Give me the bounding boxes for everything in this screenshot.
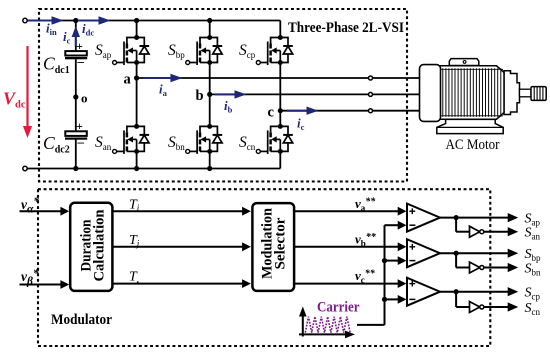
svg-text:o: o (81, 91, 88, 106)
wire Cdc1 top lead (75, 21, 77, 52)
inverter (NOT gate) 3 (470, 302, 480, 313)
connector phase c (369, 109, 373, 113)
switch Scp (MOSFET with freewheeling diode) (256, 35, 293, 65)
svg-text:Calculation: Calculation (92, 210, 108, 282)
wire San to bottom bus (136, 151, 138, 168)
wire leg c to node c (279, 63, 281, 111)
wire branch to inverter 2 (455, 253, 457, 267)
wire top DC bus (27, 20, 280, 22)
carrier waveform (triangular) (305, 317, 350, 333)
wire phase b to motor (210, 93, 420, 95)
wire S_an output (484, 231, 510, 233)
junction carrier/U2 (382, 258, 387, 263)
wire node o to Cdc2 (75, 97, 77, 132)
wire comparator U2 output (440, 252, 456, 254)
svg-text:a: a (124, 72, 132, 88)
wire v_c reference (294, 283, 398, 285)
wire comparator U1 output (440, 217, 456, 219)
comparator U3 (407, 278, 440, 306)
junction top bus / Cdc leg (73, 18, 78, 23)
wire Cdc2 bottom lead (75, 140, 77, 169)
wire S_bp output (456, 252, 509, 254)
connector phase a (369, 76, 373, 80)
wire leg a upper (136, 21, 138, 38)
junction top bus leg a (134, 18, 139, 23)
junction bottom bus leg a (134, 166, 139, 171)
AC motor (induction machine drawing) (420, 59, 547, 134)
svg-text:+: + (76, 39, 83, 53)
svg-text:+: + (76, 119, 83, 133)
junction bottom bus / Cdc leg (73, 166, 78, 171)
comparator U2 (407, 239, 440, 267)
carrier axis horizontal (299, 333, 347, 335)
wire T_j (112, 246, 243, 248)
node b (phase output) (207, 92, 212, 97)
wire S_cp output (456, 291, 509, 293)
junction output U2 (454, 251, 459, 256)
svg-text:c: c (268, 105, 275, 121)
wire branch to inverter 3 (455, 292, 457, 307)
comparator U1 (407, 204, 440, 232)
junction output U3 (454, 289, 459, 294)
wire S_cn output (484, 306, 510, 308)
wire carrier to bus (357, 324, 385, 326)
svg-text:–: – (77, 53, 85, 68)
wire input v_beta (20, 284, 62, 286)
current arrow i_a (143, 77, 171, 79)
wire v_b reference (294, 246, 398, 248)
current arrow i_b (215, 93, 243, 95)
switch San (MOSFET with freewheeling diode) (113, 124, 150, 154)
wire carrier bus (384, 225, 386, 325)
wire Cdc1 to node o (75, 59, 77, 97)
wire v_a reference (294, 210, 398, 212)
terminal DC- input (23, 166, 27, 170)
capacitor Cdc2 (65, 131, 87, 136)
wire leg b to node b (209, 63, 211, 95)
current arrow i_c (75, 30, 77, 46)
wire input v_alpha (20, 210, 62, 212)
wire T_i (112, 210, 243, 212)
wire branch to inverter 1 (455, 218, 457, 232)
switch Sbp (MOSFET with freewheeling diode) (186, 35, 223, 65)
Modulator enclosure (dashed box) (38, 189, 490, 346)
switch Scn (MOSFET with freewheeling diode) (256, 124, 293, 154)
svg-text:Three-Phase 2L-VSI: Three-Phase 2L-VSI (288, 20, 404, 36)
V_dc arrow (26, 46, 28, 133)
wire S_ap output (456, 217, 509, 219)
current arrow i_c phase (287, 110, 315, 112)
switch Sbn (MOSFET with freewheeling diode) (186, 124, 223, 154)
current arrow i_in (28, 20, 62, 22)
node o (midpoint) (73, 94, 78, 99)
wire phase a to motor (137, 77, 420, 79)
carrier axis vertical (302, 311, 304, 337)
block Modulation Selector (252, 203, 294, 291)
capacitor Cdc1 (65, 51, 87, 55)
wire S_bn output (484, 267, 510, 269)
wire T_k (112, 283, 243, 285)
wire leg b upper (209, 21, 211, 38)
terminal DC+ input (23, 18, 27, 22)
junction bottom bus leg b (207, 166, 212, 171)
wire comparator U3 output (440, 291, 456, 293)
svg-text:Carrier: Carrier (317, 300, 360, 316)
wire Sbn to bottom bus (209, 151, 211, 168)
wire leg a to node a (136, 63, 138, 79)
current arrow i_dc (78, 20, 108, 22)
inverter (NOT gate) 2 (470, 262, 480, 273)
wire bottom DC bus (27, 168, 280, 170)
node c (phase output) (278, 108, 283, 113)
wire Scn to bottom bus (279, 151, 281, 168)
wire node b to Sbn (209, 94, 211, 126)
inverter (NOT gate) 1 (470, 226, 480, 237)
wire carrier to comparator U3 - input (385, 298, 399, 300)
wire node c to Scn (279, 111, 281, 127)
svg-text:–: – (77, 134, 85, 149)
wire carrier to comparator U1 - input (385, 224, 399, 226)
VSI enclosure (dashed box) (39, 9, 407, 182)
wire phase c to motor (280, 110, 420, 112)
svg-text:Modulator: Modulator (51, 312, 113, 328)
svg-text:AC Motor: AC Motor (446, 137, 500, 153)
junction output U1 (454, 215, 459, 220)
wire node a to San (136, 78, 138, 126)
wire carrier to comparator U2 - input (385, 260, 399, 262)
junction carrier/U3 (382, 297, 387, 302)
node a (phase output) (134, 75, 139, 80)
svg-text:b: b (196, 88, 204, 104)
svg-text:Selector: Selector (272, 217, 288, 270)
wire leg c upper (279, 21, 281, 38)
junction top bus leg b (207, 18, 212, 23)
connector phase b (369, 92, 373, 96)
switch Sap (MOSFET with freewheeling diode) (113, 35, 150, 65)
block Duration Calculation (70, 203, 112, 291)
